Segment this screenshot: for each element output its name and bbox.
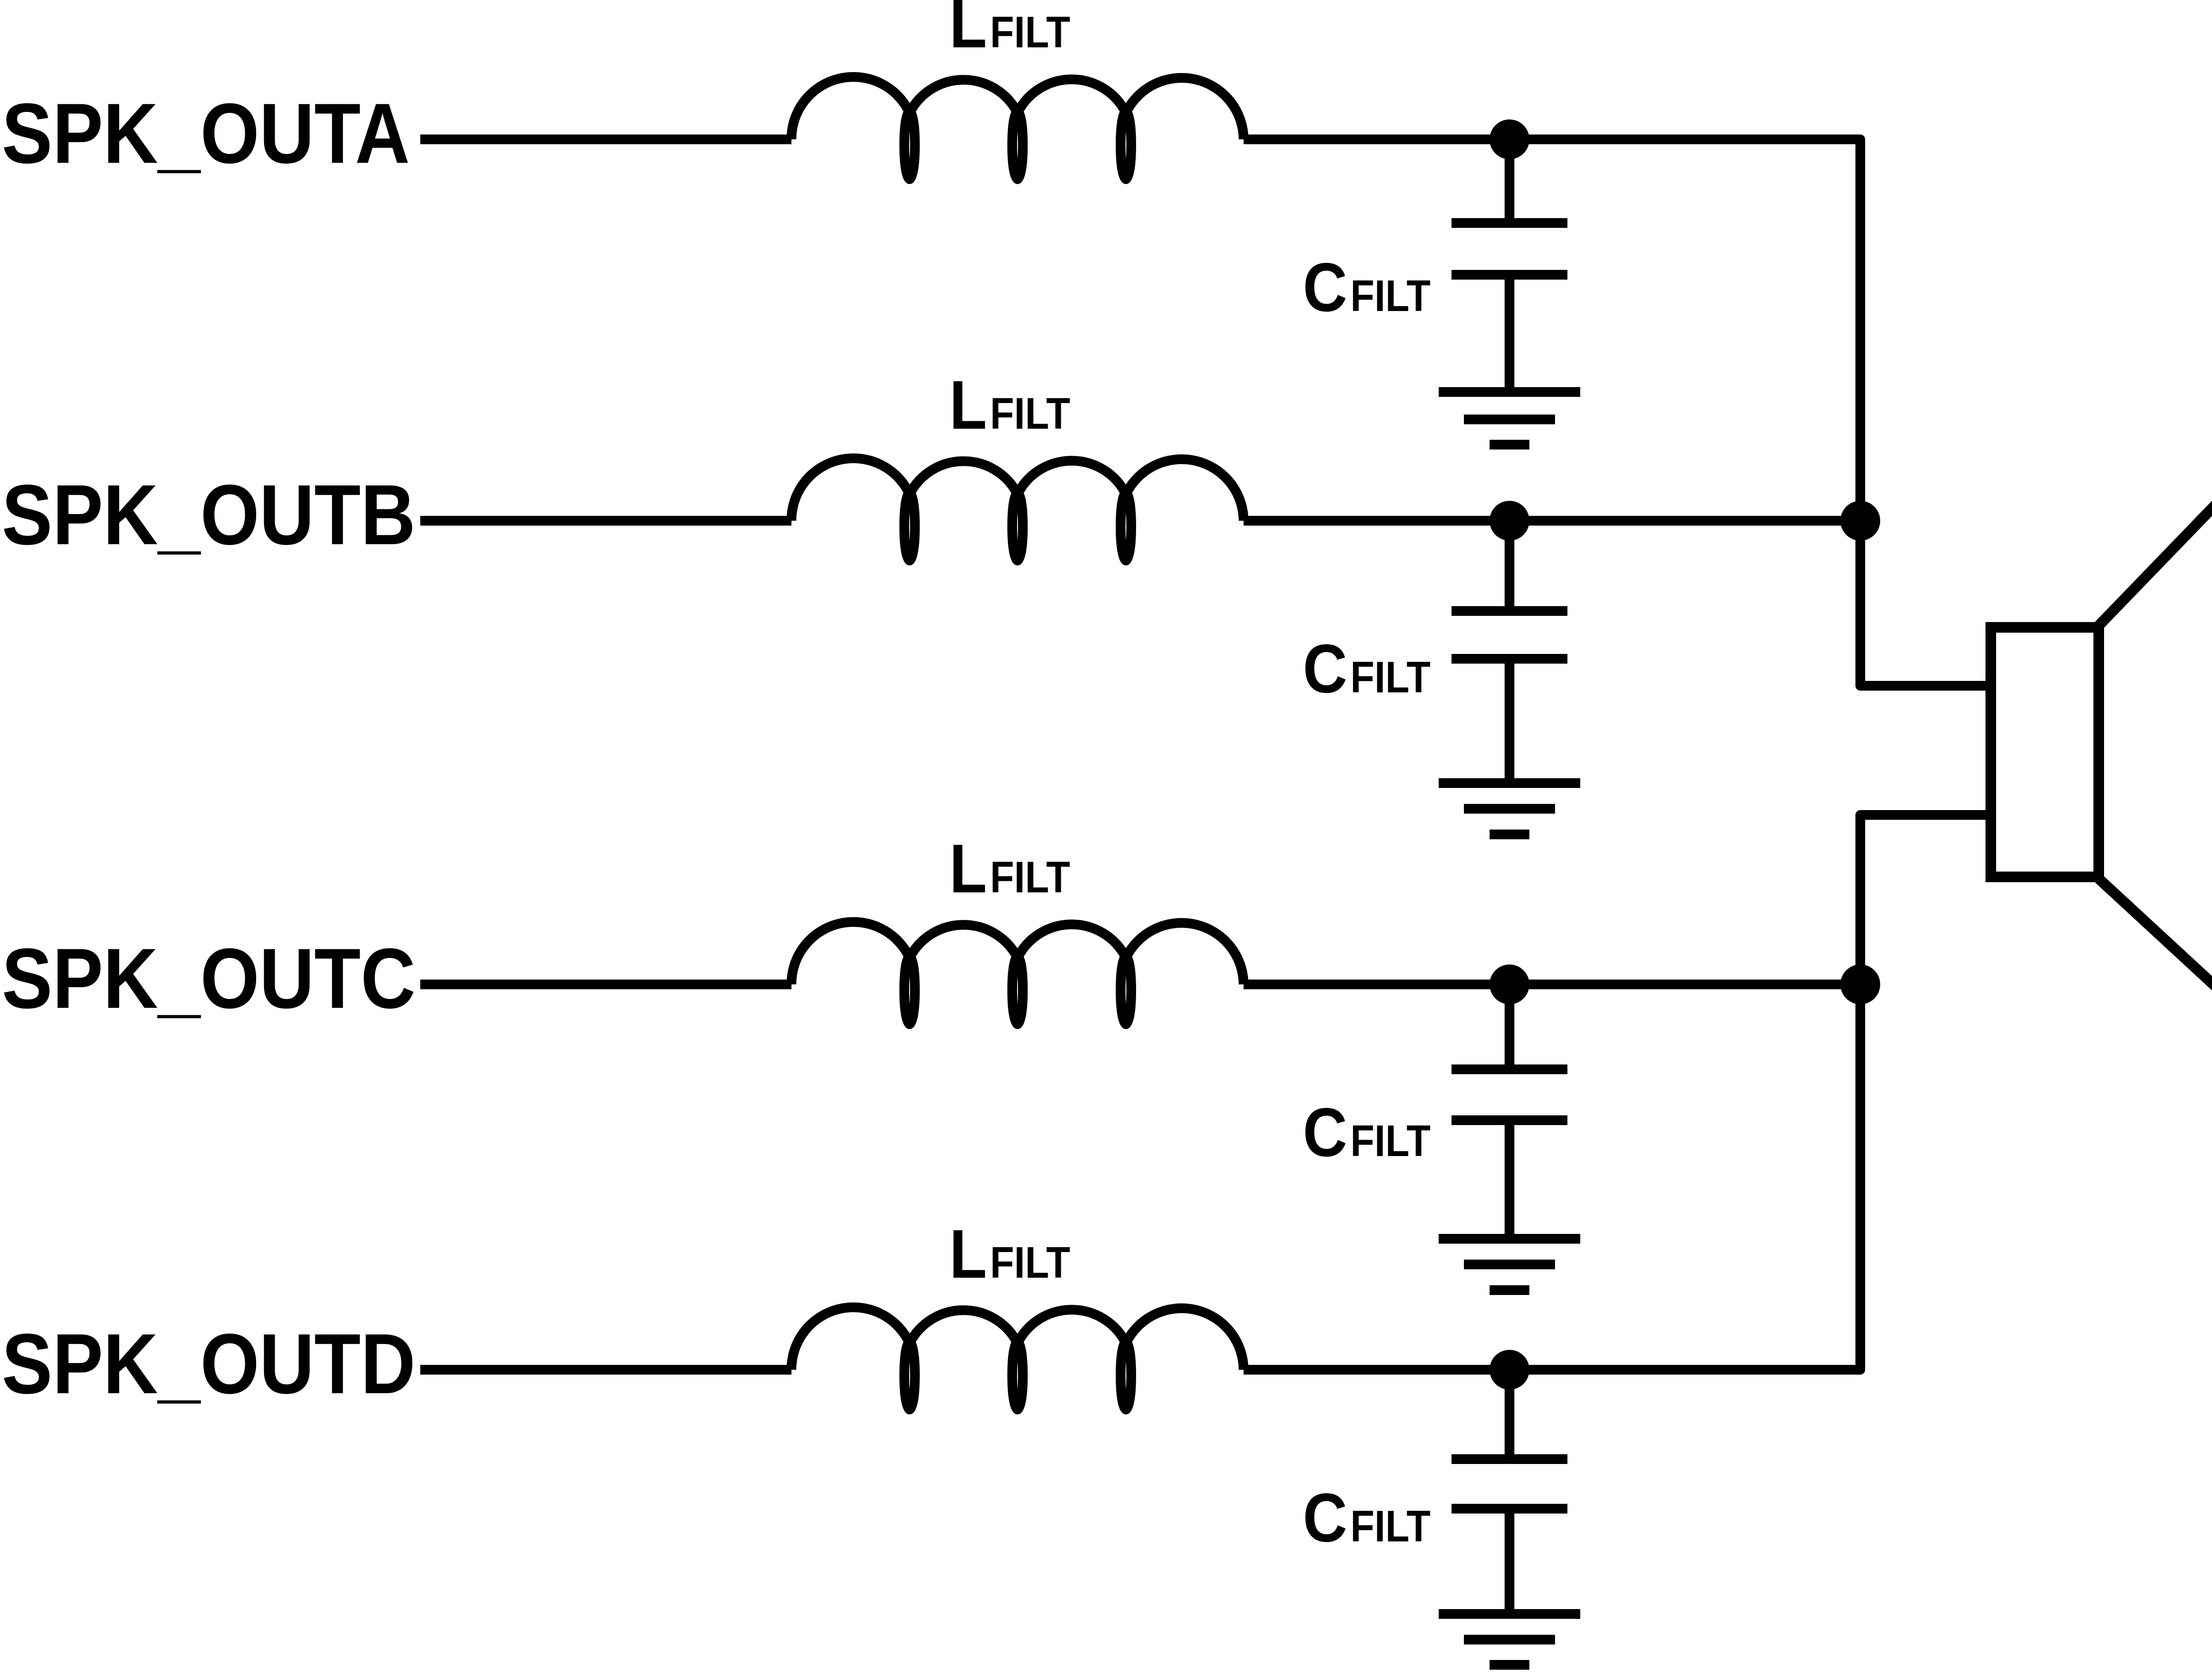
node A filter tap junction	[1490, 119, 1529, 159]
wire row A inductor to bus, top bus down to speaker + terminal	[1244, 139, 1993, 686]
wire row D inductor to bus, bottom bus up to speaker - terminal	[1244, 815, 1993, 1370]
wire row C label to inductor	[420, 980, 791, 989]
capacitor CFILT row B	[1452, 521, 1567, 783]
svg-text:CFILT: CFILT	[1303, 1479, 1431, 1556]
svg-text:LFILT: LFILT	[949, 1215, 1070, 1292]
svg-text:SPK_OUTA: SPK_OUTA	[2, 86, 410, 181]
capacitor CFILT row A	[1452, 139, 1567, 392]
node C bus junction	[1840, 964, 1880, 1004]
ground row C	[1439, 1239, 1580, 1290]
ground row A	[1439, 392, 1580, 445]
wire row B label to inductor	[420, 516, 791, 526]
svg-text:CFILT: CFILT	[1303, 630, 1431, 707]
inductor LFILT row B	[791, 458, 1244, 561]
wire row B inductor to bus junction	[1244, 516, 1860, 526]
speaker LOAD body	[1991, 627, 2099, 877]
inductor LFILT row A	[791, 77, 1244, 179]
svg-text:LFILT: LFILT	[949, 0, 1070, 62]
speaker horn cone	[2099, 495, 2212, 995]
inductor LFILT row D	[791, 1307, 1244, 1410]
node B bus junction	[1840, 501, 1880, 541]
capacitor CFILT row C	[1452, 984, 1567, 1239]
svg-text:CFILT: CFILT	[1303, 249, 1431, 326]
wire row D label to inductor	[420, 1365, 791, 1375]
node C filter tap junction	[1490, 964, 1529, 1004]
ground row D	[1439, 1614, 1580, 1665]
wire row A label to inductor	[420, 134, 791, 144]
svg-text:SPK_OUTB: SPK_OUTB	[2, 467, 415, 563]
node D filter tap junction	[1490, 1350, 1529, 1390]
svg-text:SPK_OUTD: SPK_OUTD	[2, 1316, 415, 1412]
node B filter tap junction	[1490, 501, 1529, 541]
capacitor CFILT row D	[1452, 1370, 1567, 1614]
svg-text:SPK_OUTC: SPK_OUTC	[2, 931, 415, 1026]
ground row B	[1439, 783, 1580, 834]
svg-text:LFILT: LFILT	[949, 830, 1070, 907]
svg-text:LFILT: LFILT	[949, 366, 1070, 443]
wire row C inductor to bus junction	[1244, 980, 1860, 989]
inductor LFILT row C	[791, 922, 1244, 1024]
svg-text:CFILT: CFILT	[1303, 1094, 1431, 1171]
